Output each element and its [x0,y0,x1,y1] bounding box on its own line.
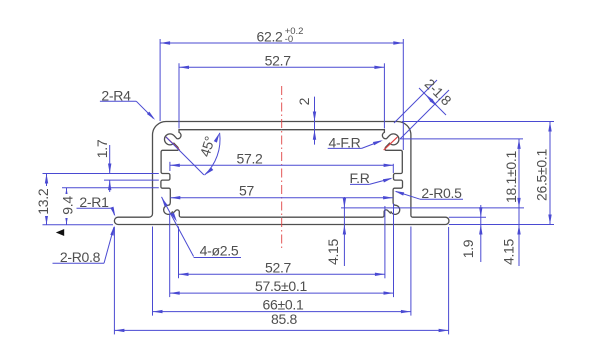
dimension 26.5 +-0.1 overall height (right) [402,122,554,225]
dimension 18.1 +-0.1 boss center spacing (right) [400,139,523,266]
label 2-R0.5 lower rib radius [394,185,463,201]
svg-text:9.4: 9.4 [60,196,76,215]
dimension 57 width across lower ribs [170,183,393,200]
label 2-R1 flange fillet [77,194,116,217]
svg-text:13.2: 13.2 [35,188,51,215]
dimension 85.8 overall width [114,227,448,334]
svg-text:F.R: F.R [349,170,369,186]
fillet mark on top-right screw boss (F.R) [384,137,398,150]
dimension 2-1.8 corner wall thickness (45 deg) [394,76,455,139]
dimension 66 +-0.1 [153,227,411,316]
svg-text:-0: -0 [285,34,293,45]
svg-text:1.9: 1.9 [460,239,476,258]
svg-text:4.15: 4.15 [325,238,341,265]
svg-text:1.7: 1.7 [94,139,110,158]
label 2-R0.8 flange tip radius [53,226,115,266]
label 4-dia2.5 screw holes with leader [162,197,242,259]
dimension 45 degree boss slot angle [166,133,220,175]
label 4-F.R boss fillets [328,134,383,150]
profile inner cavity outline left half (screw bosses, PCB-slot ribs) [161,130,282,218]
svg-text:85.8: 85.8 [271,311,298,327]
label 2-R4 top corner radius [100,87,155,120]
svg-text:62.2: 62.2 [256,28,283,44]
svg-text:26.5±0.1: 26.5±0.1 [534,148,550,201]
profile inner cavity outline right half (mirrored) [282,130,403,218]
dimension 57.2 width across upper ribs [170,150,394,173]
extension line through lower boss centers [341,207,524,209]
dimension 1.9 flange thickness (right) [449,205,486,262]
dimension 13.2 (left) [35,174,113,225]
svg-text:52.7: 52.7 [265,52,292,68]
fillet mark on top-left screw boss (F.R) [166,137,180,150]
svg-text:2-R1: 2-R1 [79,194,109,210]
svg-text:18.1±0.1: 18.1±0.1 [503,150,519,203]
dimension 4.15 boss center to bottom (left) [325,197,346,266]
dimension 9.4 (left) [60,188,159,225]
svg-text:4-ø2.5: 4-ø2.5 [200,243,239,259]
dimension 52.7 bottom [179,206,385,278]
dimension 4.15 boss center to bottom (right) [500,225,520,266]
svg-text:57: 57 [239,183,254,199]
svg-text:2: 2 [296,97,312,105]
dimension 57.5 +-0.1 [170,204,394,298]
svg-text:4.15: 4.15 [500,238,516,265]
svg-text:2-R0.8: 2-R0.8 [60,249,101,265]
svg-text:57.2: 57.2 [236,150,263,166]
dimension 2 top wall thickness [296,97,316,145]
datum marker triangle [56,229,64,236]
svg-text:57.5±0.1: 57.5±0.1 [255,278,308,294]
vertical center line [281,86,283,248]
dimension 52.7 top inner width [179,52,384,128]
dimension 62.2 +0.2/-0 top width [160,26,403,150]
svg-text:2-R0.5: 2-R0.5 [421,185,462,201]
aluminum extrusion profile outer outline [114,122,449,225]
label F.R rib fillet [349,170,392,186]
dimension 1.7 rib step (left) [43,139,159,192]
svg-text:52.7: 52.7 [265,259,292,275]
